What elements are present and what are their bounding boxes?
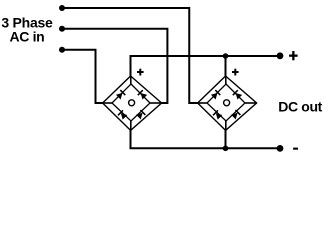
svg-text:AC in: AC in [10, 29, 45, 45]
svg-text:DC out: DC out [278, 98, 322, 114]
